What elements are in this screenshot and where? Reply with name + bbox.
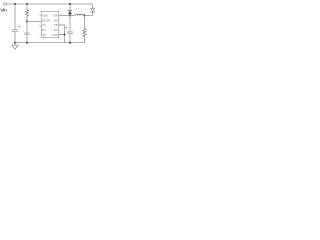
- node C3 ground junction: [69, 42, 71, 44]
- resistor R1: [25, 10, 28, 17]
- wire GND pin: [59, 34, 65, 36]
- svg-text:VDD: VDD: [42, 14, 48, 18]
- terminal Vin: [4, 3, 7, 6]
- svg-text:SW: SW: [53, 14, 58, 18]
- svg-text:Vin: Vin: [0, 7, 7, 13]
- wire C1 lower: [14, 32, 16, 43]
- capacitor C1: [12, 30, 19, 32]
- plus mark C3: [65, 27, 67, 29]
- wire D1 top lead: [69, 4, 71, 10]
- node R1 top junction: [26, 3, 28, 5]
- wire L1 to D2: [85, 15, 93, 17]
- wire FB pin: [59, 25, 65, 43]
- svg-text:3: 3: [38, 25, 40, 27]
- svg-text:NC: NC: [54, 18, 58, 22]
- svg-text:NC: NC: [42, 28, 46, 32]
- diode D2 zener: [91, 8, 95, 12]
- node ground junction: [14, 42, 16, 44]
- wire R1 bottom lead: [26, 16, 28, 21]
- pin stub 3: [39, 25, 41, 27]
- pin stub 1: [39, 15, 41, 17]
- svg-text:NC: NC: [54, 28, 58, 32]
- capacitor C2: [25, 33, 30, 35]
- ground: [12, 43, 18, 50]
- node GND stub junction: [64, 34, 66, 36]
- wire to pin MODE: [27, 20, 41, 22]
- capacitor C3: [67, 32, 73, 34]
- wire R2 bottom lead: [84, 37, 86, 43]
- diode D1: [68, 9, 72, 11]
- node input junction: [14, 3, 16, 5]
- node A junction: [69, 15, 71, 17]
- wire C2 upper: [26, 21, 28, 33]
- svg-text:MODE: MODE: [42, 18, 50, 22]
- wire D2 top lead: [92, 4, 94, 8]
- plus mark C1: [18, 26, 20, 28]
- svg-text:9: 9: [60, 20, 62, 22]
- node L1 right junction: [84, 15, 86, 17]
- svg-text:GND: GND: [52, 33, 58, 37]
- node C2 ground junction: [26, 42, 28, 44]
- svg-text:SC: SC: [42, 23, 46, 27]
- wire C1 upper: [14, 4, 16, 30]
- inductor L1: [75, 14, 84, 16]
- wire C2 lower: [26, 35, 28, 43]
- svg-text:FB: FB: [54, 23, 58, 27]
- wire SW to node A: [59, 15, 70, 17]
- wire R2 top lead: [84, 16, 86, 29]
- resistor R2: [83, 29, 86, 37]
- wire top rail: [6, 3, 92, 5]
- wire bottom rail: [15, 42, 85, 44]
- node D1 top junction: [69, 3, 71, 5]
- node MODE junction: [26, 20, 28, 22]
- wire R1 top lead: [26, 4, 28, 10]
- wire C3 lower: [69, 34, 71, 43]
- wire D2 bottom lead: [92, 12, 94, 15]
- svg-text:4: 4: [38, 30, 40, 32]
- svg-text:NC: NC: [42, 33, 46, 37]
- wire C3 upper: [69, 16, 71, 33]
- op-amp U1 IC box: [41, 11, 58, 37]
- svg-text:7: 7: [60, 30, 62, 32]
- wire D1 bottom lead: [69, 14, 71, 15]
- wire node A to L1: [70, 15, 75, 17]
- svg-text:5: 5: [38, 34, 40, 36]
